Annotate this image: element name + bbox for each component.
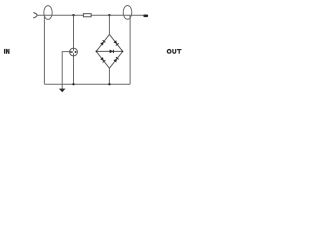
node: junction top of diode bridge xyxy=(108,14,110,16)
diode D1 (top-left edge) xyxy=(100,40,105,45)
diode D3 (bottom-left edge) xyxy=(100,57,105,62)
wire: bridge bottom to rail xyxy=(108,68,110,84)
node: bridge left vertex xyxy=(96,51,98,53)
wire: gas discharge tube bottom to rail xyxy=(73,56,75,84)
label OUT xyxy=(167,49,181,54)
wire: top line IN to OUT xyxy=(37,14,144,16)
diode bridge outline xyxy=(96,34,123,68)
gas discharge tube F1 xyxy=(70,48,78,56)
label IN xyxy=(4,49,10,54)
wire: top feed of diode bridge xyxy=(108,15,110,34)
arrester ellipse right xyxy=(123,5,132,19)
output terminal arrow xyxy=(143,15,148,18)
ground earth arrow xyxy=(59,89,66,93)
diode D4 (bottom-right edge) xyxy=(113,57,118,62)
diode D2 (top-right edge) xyxy=(113,40,118,45)
wire: top feed of gas discharge tube xyxy=(73,15,75,48)
wire: bridge center link xyxy=(96,50,123,52)
wire: gas discharge tube side electrode to earth xyxy=(62,52,70,90)
arrester ellipse left xyxy=(44,6,52,20)
suppressor diode D5 (center) xyxy=(110,50,114,54)
node: junction top of gas discharge tube xyxy=(72,14,74,16)
node: junction GDT bottom on rail xyxy=(72,83,74,85)
node: bridge right vertex xyxy=(122,51,124,53)
wire: right drop to ground rail xyxy=(129,15,131,84)
node: junction bridge bottom on rail xyxy=(108,83,110,85)
input terminal chevron xyxy=(33,13,37,18)
wire: ground rail xyxy=(44,83,130,85)
wire: left drop to ground rail xyxy=(43,15,45,84)
resistor R1 xyxy=(83,14,91,17)
